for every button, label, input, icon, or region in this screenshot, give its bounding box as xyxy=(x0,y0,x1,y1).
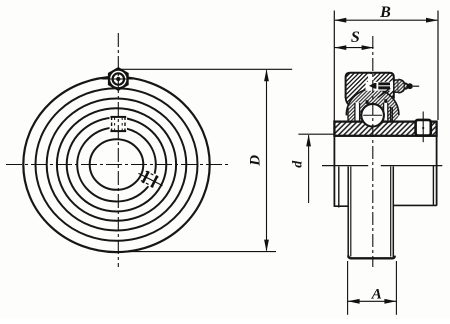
set screw S2 (45 deg) xyxy=(135,167,165,192)
outer housing circle (largest) xyxy=(23,77,209,252)
bottom of wide cylinder xyxy=(334,205,348,207)
cylinder upper section edges xyxy=(333,136,335,207)
grease nipple tip ball xyxy=(407,83,413,89)
seal slots xyxy=(355,103,360,123)
grease nipple stem line xyxy=(413,85,419,87)
centerline right view xyxy=(372,36,374,267)
svg-text:B: B xyxy=(379,4,391,21)
set screw S1 dashed sides xyxy=(111,117,113,132)
set screw square nut on bar xyxy=(416,120,431,136)
sleeve bottom xyxy=(348,256,395,259)
grease passage diagonal xyxy=(378,88,390,97)
svg-text:d: d xyxy=(290,160,305,168)
dim D line xyxy=(266,70,268,250)
horizontal centerline left view xyxy=(6,164,229,166)
svg-text:S: S xyxy=(351,29,360,46)
sleeve (narrow) verticals xyxy=(347,167,349,258)
bearing housing block xyxy=(346,73,394,107)
bore circle xyxy=(90,139,144,190)
circle 4 xyxy=(57,108,176,221)
dim A line xyxy=(348,300,397,302)
circle 3 bearing OD xyxy=(47,99,187,231)
dim A ext lines xyxy=(347,261,349,315)
dim d line xyxy=(308,135,310,203)
dim S line xyxy=(334,47,373,49)
grease passage white slot xyxy=(366,82,394,91)
zerk screw black bars xyxy=(369,83,376,89)
ball xyxy=(361,104,384,127)
step line at mid xyxy=(322,165,368,167)
svg-text:D: D xyxy=(247,155,263,167)
set screw S1 top bar xyxy=(110,116,126,118)
vertical centerline left view xyxy=(117,33,119,267)
outer ring dome xyxy=(346,89,399,122)
shaft bar (hatched) xyxy=(334,122,436,136)
dim D bottom ref line xyxy=(113,251,276,253)
ball crosshair xyxy=(363,114,382,116)
grease nipple neck line xyxy=(403,83,405,89)
dim d ref line xyxy=(298,133,335,135)
dim B ext left xyxy=(333,11,335,122)
circle 5 xyxy=(67,118,167,212)
retainer marks xyxy=(366,100,369,104)
svg-text:A: A xyxy=(371,286,382,302)
dim B line xyxy=(335,19,437,21)
grease nipple hex nut (front) xyxy=(108,68,128,91)
dim B ext right xyxy=(437,11,439,121)
housing spherical seat curves xyxy=(346,98,353,107)
grease nipple profile xyxy=(398,79,407,93)
nut crosshair xyxy=(102,78,135,80)
grease nipple boss (section) xyxy=(394,80,399,92)
vertical channel at block top xyxy=(368,74,374,83)
inner ring side lines xyxy=(347,108,349,123)
circle 6 inner ring xyxy=(77,128,156,202)
set screw S1 bottom bar xyxy=(110,130,126,132)
dim D top ref line xyxy=(119,68,292,70)
set screw S1 white backing xyxy=(110,115,128,134)
inner step verticals xyxy=(338,167,340,208)
set screw centerline xyxy=(422,112,424,143)
housing circle 2 xyxy=(36,88,198,241)
